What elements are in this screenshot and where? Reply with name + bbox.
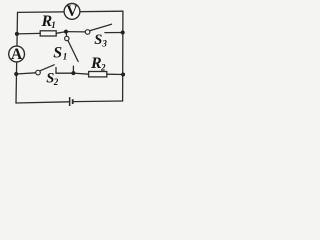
label R1 xyxy=(41,13,56,30)
svg-text:3: 3 xyxy=(101,38,107,48)
label S3 xyxy=(94,32,107,48)
svg-text:2: 2 xyxy=(100,63,106,73)
label R2 xyxy=(90,55,106,73)
node on left wire at S2 branch xyxy=(14,72,18,76)
svg-text:1: 1 xyxy=(51,20,56,30)
node on left wire at R1 branch xyxy=(15,32,19,36)
wire R1 branch left xyxy=(17,32,40,35)
resistor R1 xyxy=(40,31,56,36)
wire S3 right stub xyxy=(105,32,123,34)
wire node to S3 xyxy=(66,31,85,33)
wire bottom right of battery xyxy=(73,100,122,103)
node S1 bottom junction xyxy=(71,71,75,75)
ammeter A xyxy=(9,46,25,63)
wire bottom left of battery xyxy=(16,102,69,103)
svg-text:V: V xyxy=(66,3,78,20)
label S2 xyxy=(46,71,59,87)
wire R2 to right side xyxy=(107,73,123,75)
svg-text:S: S xyxy=(53,44,62,61)
node on right wire at S3 stub xyxy=(121,31,125,35)
wire S2 branch left xyxy=(16,73,36,74)
wire S1 bottom stub xyxy=(72,66,74,73)
wire R1 to node xyxy=(56,32,66,34)
wire right side xyxy=(122,11,124,101)
node on right wire at R2 xyxy=(121,73,125,77)
svg-text:S: S xyxy=(94,32,102,48)
svg-text:2: 2 xyxy=(53,77,59,87)
switch S1 xyxy=(65,36,78,61)
node R1/S1/S3 junction xyxy=(64,30,68,34)
wire top (battery loop top side) xyxy=(18,11,123,12)
wire S1 top stub xyxy=(65,32,68,37)
resistor R2 xyxy=(89,72,107,77)
wire left side xyxy=(16,12,18,103)
svg-text:1: 1 xyxy=(63,52,68,62)
svg-text:A: A xyxy=(11,46,23,63)
voltmeter V xyxy=(64,3,80,20)
wire S2 right stub xyxy=(55,68,57,74)
switch S2 xyxy=(36,65,55,75)
label S1 xyxy=(53,44,67,61)
switch S3 xyxy=(85,24,111,34)
battery cell xyxy=(69,97,74,106)
wire middle branch to R2 xyxy=(56,73,89,74)
